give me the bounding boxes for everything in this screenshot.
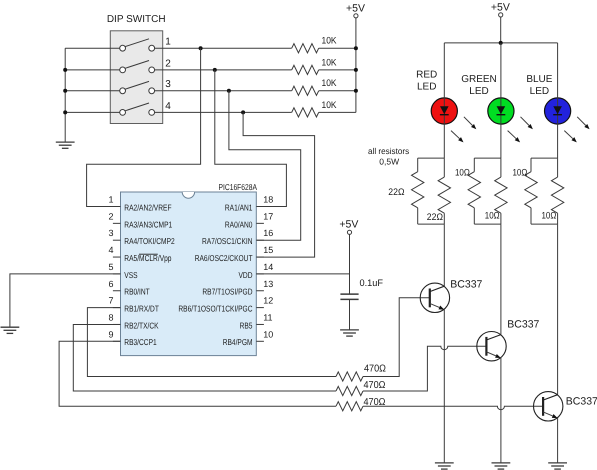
- label Q1 BC337: [450, 278, 482, 290]
- pin 17 stub: [256, 222, 264, 224]
- svg-text:15: 15: [263, 245, 273, 255]
- label R6 470: [364, 380, 386, 391]
- svg-text:RA2/AN2/VREF: RA2/AN2/VREF: [124, 202, 171, 212]
- svg-text:1: 1: [165, 37, 171, 48]
- wire switch row 4 left: [65, 111, 122, 113]
- svg-text:RA7/OSC1/CKIN: RA7/OSC1/CKIN: [202, 236, 253, 246]
- pin 14 stub: [256, 273, 264, 275]
- svg-text:RB2/TX/CK: RB2/TX/CK: [124, 320, 159, 330]
- LED D2 green LED body: [488, 98, 514, 124]
- svg-text:11: 11: [263, 312, 272, 322]
- wire R5 to Q1 base: [363, 298, 430, 377]
- svg-text:4: 4: [165, 101, 171, 112]
- label 10K #4: [322, 100, 338, 111]
- svg-text:10Ω: 10Ω: [455, 168, 470, 179]
- wire branch 3 to Q3 collector: [557, 224, 559, 395]
- svg-text:14: 14: [263, 262, 273, 272]
- pin name RB1/RX/DT: [124, 304, 159, 314]
- wire R10K-2 to +5V bus: [319, 69, 356, 71]
- svg-text:RB5: RB5: [240, 320, 253, 330]
- svg-text:VSS: VSS: [124, 270, 138, 280]
- label resistor pair 1 bottom: [427, 212, 443, 223]
- wire main branch 3 upper: [557, 158, 559, 177]
- svg-text:RB3/CCP1: RB3/CCP1: [124, 337, 157, 347]
- wire resistor pair 3 left bottom: [530, 208, 532, 224]
- svg-text:2: 2: [108, 211, 113, 221]
- DIP switch label: [107, 14, 166, 25]
- pin 12 stub: [256, 307, 264, 309]
- svg-text:3: 3: [165, 79, 171, 90]
- svg-text:all resistors: all resistors: [368, 146, 409, 156]
- resistor R10 left: [468, 172, 480, 208]
- svg-text:470Ω: 470Ω: [364, 380, 386, 391]
- pin name RA3/AN3/CMP1: [124, 219, 172, 229]
- ground (C1): [340, 330, 359, 336]
- pin 7 stub: [113, 307, 121, 309]
- LED D1 red LED diode symbol: [440, 106, 449, 115]
- pin 11 stub: [256, 323, 264, 325]
- pin 10 stub: [256, 340, 264, 342]
- svg-text:RB7/T1OSI/PGD: RB7/T1OSI/PGD: [202, 287, 252, 297]
- label resistor pair 1 side: [388, 187, 404, 198]
- wire R7 to Q3 base (hop over Q2 emitter): [363, 406, 543, 410]
- resistor R11 right: [495, 177, 507, 213]
- label D1 red LED: [416, 70, 437, 93]
- wire Q2 emitter to ground: [500, 358, 502, 463]
- label resistor pair 3 bottom: [542, 210, 557, 221]
- wire resistor pair 3 top stub: [531, 157, 558, 159]
- pin number 16: [263, 228, 273, 238]
- svg-text:RB1/RX/DT: RB1/RX/DT: [124, 304, 159, 314]
- svg-text:RA4/TOKI/CMP2: RA4/TOKI/CMP2: [124, 236, 175, 246]
- wire switch row 2 right: [155, 69, 292, 71]
- ground (VSS): [1, 327, 20, 333]
- LED D3 blue LED body: [545, 98, 571, 124]
- resistor R10K-1: [292, 44, 319, 53]
- junction node row2: [213, 68, 217, 72]
- pin 2 stub: [113, 222, 121, 224]
- wire resistor pair 1 top stub: [418, 157, 445, 159]
- wire main branch 1 upper: [443, 158, 445, 177]
- wire pin8 RB2 to R6: [73, 324, 336, 391]
- wire row3 to pin 16: [229, 91, 301, 240]
- junction node row4: [241, 110, 245, 114]
- pin name RB0/INT: [124, 287, 149, 297]
- wire switch row 3 left: [65, 90, 122, 92]
- pin number 13: [263, 279, 273, 289]
- resistor R12 left: [525, 172, 537, 208]
- pin number 4: [108, 245, 113, 255]
- pin name RB3/CCP1: [124, 337, 157, 347]
- wire VSS pin5 to ground: [10, 274, 121, 327]
- resistor R13 right: [551, 177, 563, 213]
- wire capacitor to ground: [349, 299, 351, 330]
- pin number 10: [263, 329, 273, 339]
- svg-text:1: 1: [108, 195, 113, 205]
- resistor R5 470: [336, 372, 363, 381]
- svg-text:9: 9: [108, 329, 113, 339]
- svg-text:LED: LED: [417, 82, 436, 93]
- label D2 green LED: [461, 74, 497, 97]
- wire main branch 2 upper: [500, 158, 502, 177]
- pin number 18: [263, 195, 273, 205]
- svg-text:10K: 10K: [322, 36, 338, 47]
- svg-text:RB4/PGM: RB4/PGM: [223, 337, 253, 347]
- svg-text:BLUE: BLUE: [526, 74, 552, 85]
- svg-text:3: 3: [108, 228, 113, 238]
- power +5V terminal (LEDs): [491, 2, 510, 17]
- svg-text:2: 2: [165, 58, 171, 69]
- label Q3 BC337: [566, 396, 597, 408]
- svg-text:17: 17: [263, 211, 273, 221]
- IC U1 PIC16F628A body: [121, 192, 257, 356]
- pin 1 stub: [113, 206, 121, 208]
- pin number 14: [263, 262, 273, 272]
- power +5V terminal (pull-ups): [346, 3, 365, 18]
- LED D3 blue LED diode symbol: [553, 106, 562, 115]
- svg-text:4: 4: [108, 245, 113, 255]
- junction left bus row 4: [63, 110, 67, 114]
- pin 16 stub: [256, 239, 264, 241]
- label switch pin 1: [165, 37, 171, 48]
- pin 18 stub: [256, 206, 264, 208]
- svg-text:10: 10: [263, 329, 273, 339]
- wire resistor pair 1 bottom stub: [418, 223, 445, 225]
- pin name VDD: [239, 270, 253, 280]
- pin name RB4/PGM: [223, 337, 253, 347]
- pin number 1: [108, 195, 113, 205]
- svg-text:RA3/AN3/CMP1: RA3/AN3/CMP1: [124, 219, 172, 229]
- pin number 11: [263, 312, 272, 322]
- pin 9 stub: [113, 340, 121, 342]
- wire switch row 1 left: [65, 47, 122, 49]
- junction bus row1: [354, 46, 358, 50]
- label D3 blue LED: [526, 74, 552, 97]
- transistor Q2 BC337: [477, 332, 506, 361]
- label all resistors note: [368, 146, 409, 167]
- svg-text:22Ω: 22Ω: [388, 187, 404, 198]
- wire branch 2 to Q2 collector: [500, 224, 502, 335]
- resistor pair 3 left leg: [530, 158, 532, 172]
- pin name RA0/AN0: [225, 219, 253, 229]
- pin name RB5: [240, 320, 253, 330]
- wire LED bus: [444, 42, 557, 44]
- pin number 2: [108, 211, 113, 221]
- label U1 PIC16F628A: [219, 182, 258, 192]
- wire Q3 emitter to ground: [557, 418, 559, 463]
- resistor R10K-4: [292, 108, 319, 117]
- LED D1 red LED light arrows: [451, 117, 476, 143]
- wire +5V to capacitor: [349, 234, 351, 294]
- svg-text:10Ω: 10Ω: [485, 210, 500, 221]
- pin name RA7/OSC1/CKIN: [202, 236, 253, 246]
- wire resistor pair 3 bottom stub: [531, 223, 558, 225]
- svg-text:LED: LED: [530, 86, 549, 97]
- label R5 470: [364, 364, 386, 375]
- pin 15 stub: [256, 256, 264, 258]
- svg-text:12: 12: [263, 296, 273, 306]
- junction node row1: [199, 46, 203, 50]
- wire left bus to ground: [64, 48, 66, 142]
- resistor R10K-3: [292, 86, 319, 95]
- wire LED branch 2 anode/cathode: [500, 43, 502, 158]
- svg-text:10Ω: 10Ω: [513, 168, 528, 179]
- svg-text:DIP SWITCH: DIP SWITCH: [107, 14, 166, 25]
- pin name RA6/OSC2/CKOUT: [195, 253, 253, 263]
- pin name RB7/T1OSI/PGD: [202, 287, 252, 297]
- svg-text:7: 7: [108, 296, 113, 306]
- wire main branch 3 lower: [557, 213, 559, 224]
- pin 3 stub: [113, 239, 121, 241]
- svg-text:RED: RED: [416, 70, 437, 81]
- svg-text:BC337: BC337: [566, 396, 597, 408]
- pin 4 stub: [113, 256, 121, 258]
- junction bus row2: [354, 68, 358, 72]
- wire switch row 4 right: [155, 111, 292, 113]
- pin number 8: [108, 312, 113, 322]
- svg-text:RB6/T1OSO/T1CKI/PGC: RB6/T1OSO/T1CKI/PGC: [178, 304, 252, 314]
- pin name RB2/TX/CK: [124, 320, 159, 330]
- svg-text:18: 18: [263, 195, 273, 205]
- wire resistor pair 2 bottom stub: [474, 223, 501, 225]
- DIP switch body SW1: [110, 31, 162, 124]
- junction left bus row 3: [63, 89, 67, 93]
- pin number 12: [263, 296, 273, 306]
- wire switch row 2 left: [65, 69, 122, 71]
- LED D1 red LED body: [431, 98, 457, 124]
- label R7 470: [364, 397, 386, 408]
- ground (Q2): [492, 463, 511, 469]
- svg-text:RA1/AN1: RA1/AN1: [225, 202, 253, 212]
- svg-text:10K: 10K: [322, 100, 338, 111]
- wire row4 to pin 15: [243, 112, 315, 257]
- wire R10K-3 to +5V bus: [319, 90, 356, 92]
- ground (Q3): [548, 463, 567, 469]
- label switch pin 4: [165, 101, 171, 112]
- svg-text:+5V: +5V: [346, 3, 365, 15]
- wire Q1 emitter to ground: [443, 310, 445, 463]
- resistor R10K-2: [292, 65, 319, 74]
- resistor pair 1 left leg: [417, 158, 419, 172]
- label switch pin 2: [165, 58, 171, 69]
- svg-text:0.1uF: 0.1uF: [360, 278, 384, 289]
- pin 6 stub: [113, 290, 121, 292]
- ground (DIP switch): [56, 142, 75, 148]
- switch pole 1: [120, 39, 155, 51]
- wire switch row 3 right: [155, 90, 292, 92]
- transistor Q1 BC337: [420, 283, 449, 312]
- svg-text:13: 13: [263, 279, 273, 289]
- svg-text:0,5W: 0,5W: [379, 157, 399, 167]
- junction LED bus: [499, 41, 503, 45]
- svg-text:6: 6: [108, 279, 113, 289]
- pin name RA1/AN1: [225, 202, 253, 212]
- pin number 17: [263, 211, 273, 221]
- wire row2 to pin 18: [215, 70, 287, 207]
- resistor R7 470: [336, 402, 363, 411]
- wire +5V to LED bus: [500, 17, 502, 43]
- label C1 0.1uF: [360, 278, 384, 289]
- svg-text:RA6/OSC2/CKOUT: RA6/OSC2/CKOUT: [195, 253, 253, 263]
- pin name RA5/MCLR/Vpp: [124, 253, 171, 263]
- wire R10K-1 to +5V bus: [319, 47, 356, 49]
- label resistor pair 2 bottom: [485, 210, 500, 221]
- wire VDD pin14 to +5V: [256, 273, 349, 275]
- svg-text:RA0/AN0: RA0/AN0: [225, 219, 253, 229]
- label switch pin 3: [165, 79, 171, 90]
- pin number 3: [108, 228, 113, 238]
- svg-text:+5V: +5V: [491, 2, 510, 14]
- transistor Q3 BC337: [534, 392, 563, 421]
- pin name RA4/TOKI/CMP2: [124, 236, 175, 246]
- pin 13 stub: [256, 290, 264, 292]
- svg-text:22Ω: 22Ω: [427, 212, 443, 223]
- pin 8 stub: [113, 323, 121, 325]
- label resistor pair 2 side: [455, 168, 470, 179]
- LED D2 green LED light arrows: [508, 117, 533, 143]
- LED D3 blue LED light arrows: [564, 117, 589, 143]
- switch pole 4: [120, 103, 155, 115]
- svg-text:10K: 10K: [322, 57, 338, 68]
- label Q2 BC337: [507, 319, 539, 331]
- resistor R8 left: [412, 172, 424, 208]
- svg-text:LED: LED: [469, 86, 488, 97]
- wire pin9 RB3 to R7: [59, 341, 336, 406]
- pin name VSS: [124, 270, 138, 280]
- svg-text:PIC16F628A: PIC16F628A: [219, 182, 258, 192]
- wire main branch 1 lower: [443, 213, 445, 224]
- label 10K #2: [322, 57, 338, 68]
- svg-text:470Ω: 470Ω: [364, 364, 386, 375]
- pin name RA2/AN2/VREF: [124, 202, 171, 212]
- capacitor C1 0.1uF: [340, 294, 358, 299]
- svg-text:+5V: +5V: [339, 219, 358, 231]
- svg-text:10Ω: 10Ω: [542, 210, 557, 221]
- LED D2 green LED diode symbol: [497, 106, 506, 115]
- pin number 9: [108, 329, 113, 339]
- pin number 6: [108, 279, 113, 289]
- wire R10K-4 to +5V bus: [319, 111, 356, 113]
- wire +5V pull-up bus: [355, 18, 357, 113]
- wire resistor pair 1 left bottom: [417, 208, 419, 224]
- wire branch 1 to Q1 collector: [443, 224, 445, 286]
- pin number 7: [108, 296, 113, 306]
- resistor R9 right: [438, 177, 450, 213]
- wire pin7 RB1 to R5: [87, 308, 336, 377]
- wire LED branch 1 anode/cathode: [443, 43, 445, 158]
- pin number 5: [108, 262, 113, 272]
- junction bus row3: [354, 89, 358, 93]
- power +5V terminal (VDD): [339, 219, 358, 235]
- resistor R6 470: [336, 386, 363, 395]
- pin number 15: [263, 245, 273, 255]
- svg-text:VDD: VDD: [239, 270, 253, 280]
- wire R6 to Q2 base (hop over Q1 emitter): [363, 346, 487, 391]
- junction left bus row 2: [63, 68, 67, 72]
- svg-text:BC337: BC337: [450, 278, 482, 290]
- svg-text:5: 5: [108, 262, 113, 272]
- svg-text:10K: 10K: [322, 78, 338, 89]
- svg-text:8: 8: [108, 312, 113, 322]
- pin name RB6/T1OSO/T1CKI/PGC: [178, 304, 252, 314]
- pin 5 stub: [113, 273, 121, 275]
- svg-text:BC337: BC337: [507, 319, 539, 331]
- resistor pair 2 left leg: [473, 158, 475, 172]
- svg-text:GREEN: GREEN: [461, 74, 497, 85]
- label resistor pair 3 side: [513, 168, 528, 179]
- label 10K #1: [322, 36, 338, 47]
- wire switch row 1 right: [155, 47, 292, 49]
- wire resistor pair 2 top stub: [474, 157, 501, 159]
- switch pole 2: [120, 61, 155, 73]
- switch pole 3: [120, 81, 155, 93]
- ground (Q1): [435, 463, 454, 469]
- svg-text:RB0/INT: RB0/INT: [124, 287, 149, 297]
- junction node row3: [227, 89, 231, 93]
- wire resistor pair 2 left bottom: [473, 208, 475, 224]
- wire LED branch 3 anode/cathode: [557, 43, 559, 158]
- label 10K #3: [322, 78, 338, 89]
- wire row1 to pin 1: [87, 48, 201, 206]
- wire main branch 2 lower: [500, 213, 502, 224]
- svg-text:16: 16: [263, 228, 273, 238]
